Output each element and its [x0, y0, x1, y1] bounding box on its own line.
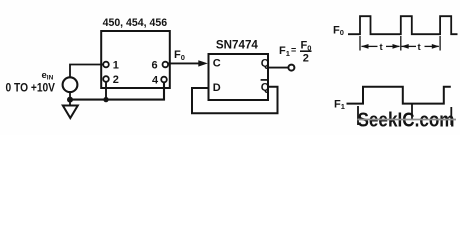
wire F0 arrow from pin 6 to clock input: [168, 62, 200, 64]
wire source bottom stub: [69, 92, 71, 100]
wire source top to pin 1: [70, 65, 103, 78]
svg-text:1: 1: [113, 59, 119, 71]
tick mark at F1 fall edge: [411, 104, 413, 120]
wire bottom bus to pin 4: [106, 82, 164, 99]
svg-text:SeekIC.com: SeekIC.com: [358, 110, 455, 132]
box 450,454,456: [101, 31, 170, 88]
pin 4: [161, 77, 167, 83]
waveform F0 trace: [348, 16, 458, 34]
dimension arrow t second period: [402, 45, 417, 47]
extension line at first rising edge: [359, 36, 361, 51]
pin 6: [163, 62, 169, 68]
node junction below pin 2: [103, 97, 108, 102]
svg-text:D: D: [213, 82, 221, 94]
extension line at second rising edge: [400, 36, 402, 51]
svg-text:2: 2: [303, 53, 309, 65]
pin 1: [103, 62, 109, 68]
svg-text:0 TO +10V: 0 TO +10V: [6, 83, 56, 95]
wire pin 2 drop: [105, 82, 107, 100]
svg-text:4: 4: [152, 74, 159, 86]
wire bottom bus junction to pin2 drop: [70, 99, 106, 101]
waveform F1 trace: [347, 87, 451, 104]
svg-text:2: 2: [113, 74, 119, 86]
pin 2: [103, 76, 109, 82]
wire feedback Qbar to D: [192, 87, 278, 113]
svg-text:C: C: [213, 57, 221, 69]
voltage source e_IN: [63, 77, 78, 92]
svg-text:6: 6: [152, 59, 158, 71]
tick mark at F1 last edge: [450, 107, 452, 125]
svg-text:450, 454, 456: 450, 454, 456: [103, 17, 168, 29]
wire Q output: [268, 67, 288, 69]
IC U1 SN7474: [209, 54, 269, 100]
svg-text:=: =: [291, 45, 296, 55]
tick mark at F1 first edge: [357, 106, 359, 125]
extension line at third rising edge: [439, 36, 441, 51]
dimension arrow t first period: [362, 45, 378, 47]
ground: [69, 100, 71, 106]
svg-text:SN7474: SN7474: [216, 39, 259, 51]
node junction below source: [67, 97, 73, 103]
terminal F1: [288, 65, 294, 71]
